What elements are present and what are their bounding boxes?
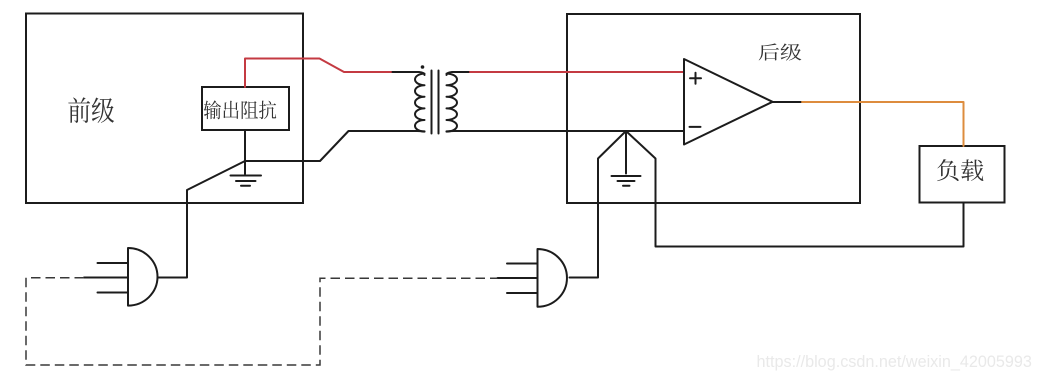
op-amp - input sign [690, 126, 701, 128]
transformer T1 primary winding [415, 74, 425, 132]
wire: primary top lead [393, 72, 425, 75]
transformer T1 secondary winding [447, 74, 458, 132]
ground G1 (below output impedance) [231, 161, 262, 186]
op-amp + input sign [690, 73, 701, 84]
label: 后级 (rear stage) [759, 43, 802, 60]
wire: from inverting-input junction down-left then vertical to plug P2 [570, 131, 627, 278]
wire: secondary top lead [447, 72, 471, 75]
wire: stem from output-impedance box bottom down to junction [244, 130, 246, 161]
transformer T1 core (two bars) [432, 71, 439, 134]
plug P2 (mains plug, middle) [498, 249, 567, 307]
box: front stage (前级) [26, 14, 303, 204]
label: 负载 (load) [937, 159, 983, 181]
wire: orange net from op-amp output to load box [802, 102, 964, 146]
wire: op-amp output (black segment) [773, 101, 803, 103]
transformer T1 polarity dot [421, 65, 425, 69]
label: 前级 (front stage) [68, 97, 114, 123]
wire: red net from transformer secondary to op-amp + input [470, 71, 684, 73]
box: output impedance (输出阻抗) [202, 87, 289, 130]
wire: secondary bottom lead to op-amp - input [447, 130, 685, 132]
dashed earth net linking plug P1 and plug P2 [26, 278, 498, 365]
svg-text:https://blog.csdn.net/weixin_4: https://blog.csdn.net/weixin_42005993 [757, 353, 1032, 371]
wire: diagonal from junction down-left then vertical to plug P1 [158, 161, 245, 278]
wire: primary bottom lead going left then down to y161 run [245, 131, 425, 161]
op-amp U1 triangle [684, 59, 773, 145]
box: rear stage (后级) [567, 14, 860, 203]
wire: return net from load bottom to inverting-input junction [626, 131, 964, 247]
plug P1 (mains plug, left) [84, 248, 158, 306]
wire: red net from output-impedance box top to transformer primary (vertical rise, top run, slant down) [245, 59, 393, 88]
box: load (负载) [920, 146, 1005, 203]
label: 输出阻抗 (output impedance) [204, 100, 277, 119]
ground G2 (inside rear stage box) [612, 131, 641, 186]
